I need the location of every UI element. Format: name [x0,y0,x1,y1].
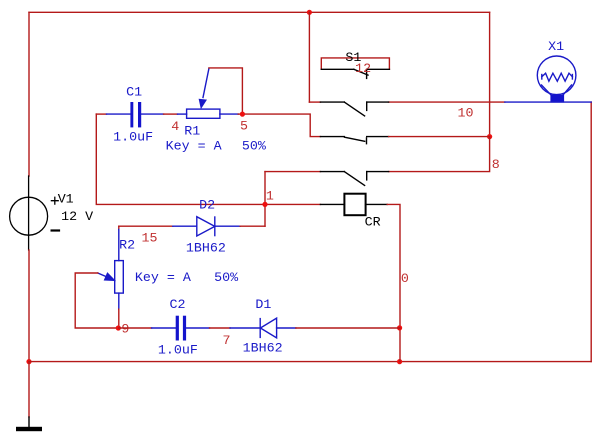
relay contact K2 (closed) [320,137,388,144]
svg-text:1.0uF: 1.0uF [158,344,198,359]
relay contact K1 (NO, open) [320,102,388,116]
svg-text:4: 4 [171,120,179,135]
capacitor C2 [152,316,210,341]
svg-text:1: 1 [266,189,274,204]
wire node 4 stub [164,113,178,115]
svg-text:R2: R2 [119,239,135,254]
switch S1 [321,58,389,79]
wire R2 bottom [118,309,120,328]
svg-text:1BH62: 1BH62 [243,341,283,356]
svg-text:Key = A: Key = A [166,139,222,154]
svg-text:10: 10 [458,107,474,122]
relay coil CR [320,194,387,216]
svg-text:1.0uF: 1.0uF [113,131,153,146]
svg-text:12 V: 12 V [61,210,93,225]
svg-text:C2: C2 [170,298,186,313]
svg-text:CR: CR [365,215,381,230]
wire top rail [29,11,490,13]
svg-text:1BH62: 1BH62 [186,241,226,256]
svg-text:X1: X1 [548,40,564,55]
svg-text:12: 12 [355,62,371,77]
svg-text:50%: 50% [242,139,266,154]
svg-text:9: 9 [121,322,129,337]
node dot bottom-left [26,359,31,364]
capacitor C1 [107,102,164,127]
node 15 wire already above; diode D2 [173,217,240,236]
svg-text:15: 15 [142,232,158,247]
potentiometer R1 [178,69,239,119]
svg-text:R1: R1 [184,125,200,140]
wire x309 vertical [308,12,310,102]
wire ground drop [28,362,30,417]
svg-text:5: 5 [240,119,248,134]
lamp X1 [505,56,591,103]
node dot 1 [262,202,267,207]
node dot 9 [116,325,121,330]
svg-text:7: 7 [223,334,231,349]
diode D1 [230,318,296,338]
wire C1 left stub [96,113,106,115]
wire node 7 stub [210,327,231,329]
wire node5 jog [244,114,320,137]
wire contact2 right [389,136,490,138]
wire contact1 left stub [309,101,320,103]
wire lamp row red [389,101,505,103]
wire left rail upper [28,12,30,176]
node dot 5 [240,112,245,117]
node junction dot top [307,10,312,15]
relay contact K3 (NO, open) [320,172,388,186]
wire R2 wiper loop [75,273,119,328]
wire D2 row left [119,225,173,227]
wire contact3 left [265,171,320,173]
svg-text:Key = A: Key = A [135,271,191,286]
svg-text:V1: V1 [58,193,74,208]
wire R1 right stub [238,113,244,115]
svg-text:8: 8 [492,158,500,173]
svg-text:D2: D2 [199,199,215,214]
wire y204 horizontal [96,114,320,204]
node dot 490,137 [487,134,492,139]
source V1 [10,176,59,250]
wire coil right to bottom [387,204,400,361]
svg-text:D1: D1 [255,298,271,313]
wire D1 to node0 [296,327,400,329]
wire node1 vertical [264,172,266,227]
node dot 399,328 [397,325,402,330]
wire R2 top corner [118,226,120,229]
wire right rail [590,102,592,362]
wire R1 wiper loop [209,68,243,114]
ground [28,417,30,427]
wire D2 to node1 [240,225,265,227]
wire x490 vertical [489,12,491,136]
svg-text:50%: 50% [214,271,238,286]
wire node 8 segment [389,137,490,172]
wire bottom rail [29,361,591,363]
potentiometer R2 [98,230,123,310]
node dot bottom-right junction [397,359,402,364]
wire C2 row left [119,327,152,329]
svg-text:C1: C1 [126,86,142,101]
svg-text:0: 0 [401,272,409,287]
wire V1 to ground node [28,250,30,362]
